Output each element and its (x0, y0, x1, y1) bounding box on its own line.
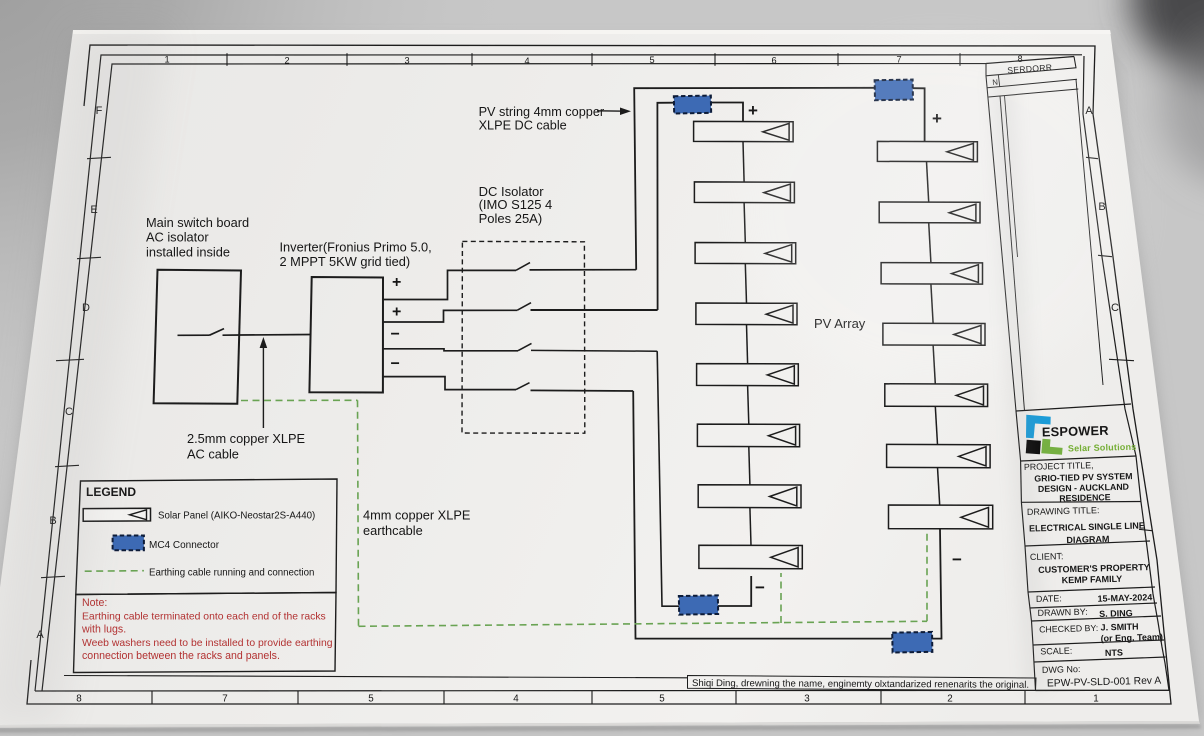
paper subtle top edge highlight (73, 30, 1111, 34)
svg-text:5: 5 (368, 694, 374, 705)
svg-text:4: 4 (524, 56, 529, 66)
svg-text:3: 3 (404, 56, 409, 66)
wire string2 inter-panel (935, 406, 937, 444)
ESPOWER logo mark black square (1026, 440, 1041, 455)
isolator pole 3 blade (518, 343, 532, 350)
solar panel PV2-3 (881, 263, 982, 285)
note text (81, 597, 333, 662)
paper soft shading (0, 30, 170, 725)
note box (74, 593, 337, 673)
dark blurred object top-right (1130, 0, 1204, 185)
svg-text:AC isolator: AC isolator (146, 230, 209, 245)
arrow to AC cable (262, 341, 264, 428)
bottom note strip box (688, 676, 1037, 691)
solar panel PV2-6 (887, 444, 991, 467)
wire from MC4 to string 2 drop (913, 88, 925, 142)
DC isolator dashed box (462, 241, 585, 433)
paper crease shading near title column (990, 70, 1048, 690)
svg-text:Note:: Note: (82, 597, 107, 609)
border frame: left row tick marks (41, 157, 111, 577)
svg-text:MC4 Connector: MC4 Connector (149, 540, 220, 551)
svg-text:Main switch board: Main switch board (146, 215, 249, 230)
AC isolator switch inside switch board (178, 334, 210, 336)
wire riser pole2 up to string 1 top (657, 103, 674, 310)
svg-text:1: 1 (1093, 694, 1098, 705)
wire MC4-4 to string2 bottom riser (932, 529, 941, 639)
svg-text:2: 2 (284, 56, 289, 66)
border frame: inner right edge (1083, 56, 1169, 691)
main switch board box (154, 270, 241, 404)
svg-text:connection between the racks a: connection between the racks and panels. (82, 650, 280, 662)
svg-text:DWG No:: DWG No: (1042, 664, 1081, 675)
wire string1 inter-panel (748, 385, 749, 424)
earthing cable bottom run (359, 621, 928, 626)
paper bottom edge highlight (0, 721, 1200, 728)
wire string1 inter-panel (743, 141, 744, 182)
svg-text:Selar Solutions: Selar Solutions (1068, 442, 1137, 454)
solar panel PV2-1 (877, 141, 977, 161)
wire pole 3 out (531, 349, 657, 352)
title block outline rows (1016, 404, 1169, 691)
legend MC4 symbol (113, 536, 144, 551)
border frame: top column tick marks (227, 53, 960, 66)
legend solar panel symbol (83, 508, 150, 521)
border frame: reference band outer line (35, 55, 1082, 691)
svg-text:15-MAY-2024: 15-MAY-2024 (1097, 592, 1152, 603)
wire DC- : inverter to isolator pole 3 (383, 349, 518, 351)
svg-text:−: − (391, 326, 400, 343)
MC4 connector MC4-C (679, 595, 718, 614)
solar panel PV2-7 (889, 505, 993, 529)
svg-text:RESIDENCE: RESIDENCE (1059, 492, 1111, 503)
svg-text:C: C (1111, 302, 1119, 314)
border frame: bottom column numbers (76, 694, 1098, 705)
svg-text:J. SMITH: J. SMITH (1100, 622, 1138, 633)
MC4 connector MC4-D (892, 632, 932, 653)
paper sheen highlight (740, 40, 1140, 380)
wire MC4-3 to string1 bottom riser (718, 576, 751, 606)
wire string2 inter-panel (929, 223, 931, 263)
svg-text:4mm copper XLPE: 4mm copper XLPE (363, 508, 470, 523)
border frame: bottom inner line (64, 676, 688, 678)
svg-text:ESPOWER: ESPOWER (1042, 423, 1109, 440)
svg-text:S. DING: S. DING (1099, 608, 1133, 619)
wire string1 inter-panel (744, 202, 745, 242)
svg-text:DRAWN BY:: DRAWN BY: (1037, 607, 1087, 618)
svg-text:XLPE DC cable: XLPE DC cable (479, 119, 567, 133)
solar panel PV1-2 (694, 182, 794, 203)
svg-text:with lugs.: with lugs. (81, 624, 126, 636)
legend box (76, 479, 337, 595)
svg-text:NTS: NTS (1105, 648, 1123, 658)
wire DC+ string2 MPPT2: inverter to isolator pole 2 (383, 310, 517, 322)
revision table N row line (987, 79, 1077, 88)
solar panel PV1-8 (699, 545, 802, 569)
wire string2 inter-panel (931, 284, 933, 323)
svg-text:Poles 25A): Poles 25A) (479, 211, 543, 226)
revision table N column divider (998, 75, 1000, 87)
solar panel PV2-4 (883, 323, 985, 345)
earthing cable vertical drop (358, 400, 359, 626)
wire string2 inter-panel (933, 345, 935, 384)
svg-text:DIAGRAM: DIAGRAM (1066, 534, 1109, 545)
solar panel PV1-6 (697, 424, 799, 447)
ESPOWER logo mark green shape (1041, 439, 1062, 455)
wire string2 inter-panel (927, 161, 929, 202)
svg-text:Inverter(Fronius Primo 5.0,: Inverter(Fronius Primo 5.0, (280, 240, 432, 255)
revision table second column line descending (1000, 96, 1025, 411)
bottom table shadow line under paper (0, 725, 1201, 732)
solar panel PV1-4 (696, 303, 797, 325)
earthing cable branch to string2 rack (926, 534, 928, 622)
legend earthing symbol (85, 570, 144, 573)
svg-text:5: 5 (649, 55, 654, 65)
earthing cable branch to string1 rack (780, 573, 782, 623)
ESPOWER logo mark cyan square (1026, 415, 1051, 439)
isolator pole 1 blade (516, 263, 530, 271)
wire pole 2 out (531, 309, 658, 311)
svg-text:+: + (748, 101, 758, 120)
wire string1 inter-panel (749, 446, 750, 484)
svg-text:Shiqi Ding, drewning the name,: Shiqi Ding, drewning the name, enginemty… (692, 678, 1029, 691)
svg-text:+: + (392, 274, 401, 291)
svg-text:earthcable: earthcable (363, 523, 423, 538)
revision table box (SERDORR) (986, 57, 1076, 76)
MC4 connector MC4-A (674, 96, 711, 114)
earthing cable from switch board to under inverter (241, 399, 358, 401)
svg-text:2 MPPT 5KW grid tied): 2 MPPT 5KW grid tied) (280, 254, 411, 269)
svg-text:−: − (391, 356, 400, 373)
isolator pole 4 blade (516, 383, 530, 390)
border frame: left row letters F-A (36, 105, 102, 641)
wire AC: switch board to inverter (241, 334, 312, 337)
revision table short middle line (1005, 96, 1018, 257)
revision table left column line descending (986, 76, 1016, 411)
isolator pole 2 blade (517, 303, 531, 311)
svg-text:+: + (392, 304, 401, 321)
wire from MC4-1 to string 1 drop (711, 103, 743, 122)
wire DC- : inverter to isolator pole 4 (383, 377, 516, 390)
title block left edge (1016, 411, 1036, 691)
wire string1 inter-panel (747, 324, 748, 363)
svg-text:Earthing cable terminated onto: Earthing cable terminated onto each end … (82, 611, 326, 622)
solar panel PV1-3 (695, 243, 796, 264)
svg-text:KEMP FAMILY: KEMP FAMILY (1062, 574, 1123, 586)
border frame: top column numbers 1-8 (164, 54, 1022, 66)
wire string1 inter-panel (750, 507, 751, 545)
revision table right column line descending (1076, 80, 1103, 386)
svg-text:5: 5 (659, 694, 665, 705)
svg-text:Solar Panel (AIKO-Neostar2S-A4: Solar Panel (AIKO-Neostar2S-A440) (158, 510, 315, 521)
border frame: inner frame line (42, 57, 1074, 692)
svg-text:7: 7 (222, 694, 227, 705)
svg-text:2.5mm copper XLPE: 2.5mm copper XLPE (187, 431, 305, 446)
svg-text:Weeb washers need to be instal: Weeb washers need to be installed to pro… (82, 638, 333, 649)
svg-text:4: 4 (513, 694, 519, 705)
svg-text:6: 6 (771, 55, 776, 65)
wire pole 1 out (530, 269, 637, 271)
svg-text:3: 3 (804, 694, 810, 705)
revision table header line (989, 89, 1079, 97)
svg-text:Earthing cable running and con: Earthing cable running and connection (149, 567, 314, 578)
solar panel PV2-2 (879, 202, 980, 223)
wire string2 inter-panel (938, 467, 940, 505)
svg-text:PV string 4mm copper: PV string 4mm copper (479, 105, 605, 119)
wire pole3 down to string1 bottom (657, 351, 679, 606)
wire DC+ string1 MPPT1: inverter to isolator pole 1 (383, 270, 516, 299)
svg-text:8: 8 (76, 694, 82, 705)
svg-text:2: 2 (947, 694, 952, 705)
border frame: right row letters A-C and ticks (1085, 105, 1152, 531)
border frame: bottom column tick marks (152, 691, 1025, 704)
arrow to DC cable (597, 110, 627, 112)
wire string1 inter-panel (745, 263, 746, 303)
MC4 connector MC4-B (875, 80, 913, 101)
svg-text:installed inside: installed inside (146, 245, 230, 260)
svg-text:−: − (952, 550, 962, 569)
wire pole 4 out (531, 389, 634, 392)
border frame: bottom band line (35, 689, 1170, 692)
wire riser pole1 up to string 2 top (634, 88, 875, 270)
solar panel PV1-1 (694, 121, 794, 141)
wire pole4 down to string2 bottom (633, 391, 892, 639)
solar panel PV1-5 (697, 364, 799, 386)
svg-text:−: − (755, 578, 765, 597)
solar panel PV1-7 (698, 485, 801, 508)
inverter box (309, 277, 383, 393)
solar panel PV2-5 (885, 384, 988, 407)
svg-text:CHECKED BY:: CHECKED BY: (1039, 623, 1098, 635)
svg-text:(or Eng. Team): (or Eng. Team) (1100, 632, 1163, 644)
svg-text:AC cable: AC cable (187, 447, 239, 462)
